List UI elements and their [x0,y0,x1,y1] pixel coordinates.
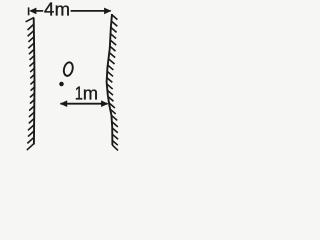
svg-text:m: m [55,0,70,20]
svg-text:4: 4 [44,0,54,20]
svg-text:m: m [83,83,98,104]
svg-text:1: 1 [75,84,83,104]
